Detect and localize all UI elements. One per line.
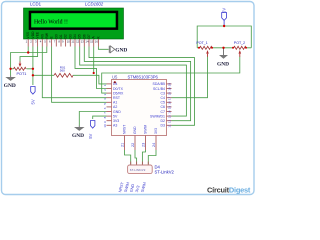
svg-text:GND: GND [72,133,84,139]
svg-text:GND: GND [113,110,121,114]
svg-text:23: 23 [142,143,146,147]
wire POT_1 and POT_2 terminals [197,47,251,49]
wire LCD pin16 to GND arrow [98,47,108,50]
ground symbol below MCU GND pin [72,126,85,140]
svg-text:560: 560 [60,68,65,72]
svg-text:D6: D6 [82,34,86,38]
svg-text:14: 14 [167,110,171,114]
LCD pin stubs [28,39,98,47]
svg-text:GND: GND [4,83,16,89]
MCU bottom pin names rotated [123,125,159,134]
5V flag below MCU 5V pin [88,121,95,139]
wire MCU bottom pin23 to connector [142,150,145,165]
svg-text:24: 24 [152,143,156,147]
svg-text:C3: C3 [161,91,166,95]
svg-text:RST: RST [113,96,121,100]
svg-text:SDA/B5: SDA/B5 [153,82,166,86]
MCU left pin numbers rotated [103,84,107,127]
wire LCD pin11 to MCU left row2 [75,47,107,89]
svg-text:11: 11 [167,124,171,127]
junction dots [9,25,247,77]
svg-text:5V: 5V [88,133,93,138]
svg-text:20: 20 [167,83,171,87]
wire POT1 terminals [11,68,33,70]
svg-text:D3: D3 [161,124,166,128]
potentiometer POT_2 [234,41,247,57]
MCU right pin stubs [167,84,172,125]
wire MCU bottom pin24 to connector [148,150,156,165]
svg-text:GND: GND [133,126,137,134]
MCU right pin numbers rotated [167,83,171,128]
svg-text:LCD1: LCD1 [30,2,42,7]
wire POT_1 wiper to MCU right row4 [172,57,208,98]
wire LCD pin12 to MCU right row8 [80,47,187,117]
svg-text:D2: D2 [64,34,68,38]
svg-text:5V: 5V [31,99,36,104]
wire [11,26,252,165]
MCU right pin names [150,82,165,127]
wire LCD pin6 E to MCU left row5 [52,47,107,103]
svg-text:19: 19 [167,87,171,91]
LCD1 display body [24,8,124,39]
wire R01 net: 5V tap through resistor to MCU left row1 [33,75,107,84]
svg-text:16: 16 [95,40,99,44]
svg-text:17: 17 [167,96,171,100]
potentiometer POT1 [14,62,27,76]
svg-text:16: 16 [167,101,171,105]
svg-text:SCL/B4: SCL/B4 [153,87,165,91]
svg-text:13: 13 [167,115,171,119]
wire MCU 5V pin to 5V flag [93,116,107,119]
svg-text:ST-LinkV2: ST-LinkV2 [155,170,175,175]
svg-text:5V: 5V [113,114,118,118]
MCU left pin stubs [107,84,112,125]
wire MCU bottom pin22 to connector [135,150,137,165]
svg-text:12: 12 [76,40,80,44]
svg-text:NRST: NRST [123,125,127,134]
svg-text:LCD1602: LCD1602 [85,2,104,7]
svg-text:CírcuitDigest: CírcuitDigest [207,185,251,194]
LCD pin numbers [26,40,99,44]
svg-text:A3: A3 [113,124,117,128]
svg-text:15: 15 [167,106,171,110]
svg-text:C6: C6 [161,105,166,109]
svg-text:A2: A2 [113,105,117,109]
CircuitDigest logo [207,185,251,194]
MCU bottom pin stubs [125,136,157,151]
5V flag top right [221,8,226,26]
resistor R01 560 [54,65,73,77]
svg-text:15: 15 [90,40,94,44]
wire LCD pin15 down to pot line [93,47,95,74]
wire MCU bottom pin21 to connector [125,150,131,165]
wire LCD pin4 RS to MCU left row4 [42,47,106,98]
svg-text:SWIM/D1: SWIM/D1 [150,114,165,118]
svg-text:D5: D5 [78,34,82,38]
wire LCD pin2 VDD down to 5V [32,47,34,86]
svg-text:GND: GND [115,48,127,54]
wire LCD pin13 to MCU right row9 [84,47,190,121]
ground symbol below POT1 [4,76,16,90]
svg-text:D4: D4 [113,82,118,86]
svg-text:13: 13 [81,40,85,44]
svg-text:VDD: VDD [31,31,35,39]
MCU bottom pin numbers rotated [121,143,157,147]
svg-text:D5/RX: D5/RX [113,91,124,95]
ground symbol right of LCD pin16 [109,46,127,54]
svg-text:D3: D3 [68,34,72,38]
svg-text:D2: D2 [161,119,166,123]
wire LCD pin1 to rail [27,47,29,53]
svg-text:VEE: VEE [36,31,40,38]
svg-text:D0/TX: D0/TX [113,87,124,91]
wire GND rail from POT1 to LCD pin1 and RW [11,47,47,76]
svg-text:A1: A1 [113,101,117,105]
svg-text:21: 21 [121,143,125,147]
wire POT_2 wiper to MCU left row3 [102,57,240,94]
svg-text:12: 12 [167,119,171,123]
wire LCD pin3 VEE to POT1 wiper [20,47,38,62]
LCD pin name strip (rotated names inside body) [26,31,100,39]
svg-text:C5: C5 [161,101,166,105]
svg-text:POT1: POT1 [17,72,27,76]
wire 5V to POT supply ring [197,26,251,48]
svg-text:D4: D4 [73,34,77,38]
wire LCD pin14 to MCU right row10 [89,47,195,126]
svg-text:C4: C4 [161,96,166,100]
svg-text:22: 22 [131,143,135,147]
potentiometer POT_1 [196,41,212,57]
svg-text:18: 18 [167,92,171,96]
microcontroller U5 STM8S103F3P6 [112,74,167,135]
ground symbol between pots [217,48,229,68]
svg-text:GND: GND [217,61,229,67]
svg-text:ST-LINK/V2: ST-LINK/V2 [130,168,146,172]
svg-text:D7: D7 [87,34,91,38]
svg-text:POT_1: POT_1 [196,41,207,45]
svg-text:3V3: 3V3 [154,128,158,134]
border frame [2,2,255,195]
wire MCU GND pin to ground [79,112,106,126]
MCU left pin names [113,82,124,127]
svg-text:10: 10 [67,40,71,44]
svg-text:POT_2: POT_2 [234,41,245,45]
svg-text:3V3: 3V3 [113,119,119,123]
svg-text:Hello World !!: Hello World !! [34,19,68,25]
svg-text:D1: D1 [59,34,63,38]
svg-text:VSS: VSS [26,31,30,38]
svg-text:STM8S103F3P6: STM8S103F3P6 [128,74,159,79]
svg-text:SWIM: SWIM [144,125,148,134]
svg-text:RW: RW [45,32,49,38]
svg-text:11: 11 [71,40,74,44]
svg-text:14: 14 [85,40,89,44]
connector U4 ST-LinkV2 [118,162,174,193]
svg-text:C7: C7 [161,110,166,114]
5V flag below LCD pin2 [31,85,36,105]
svg-text:RS: RS [40,33,44,38]
svg-text:U5: U5 [112,74,118,79]
svg-text:10: 10 [103,124,107,128]
svg-text:D0: D0 [54,34,58,38]
